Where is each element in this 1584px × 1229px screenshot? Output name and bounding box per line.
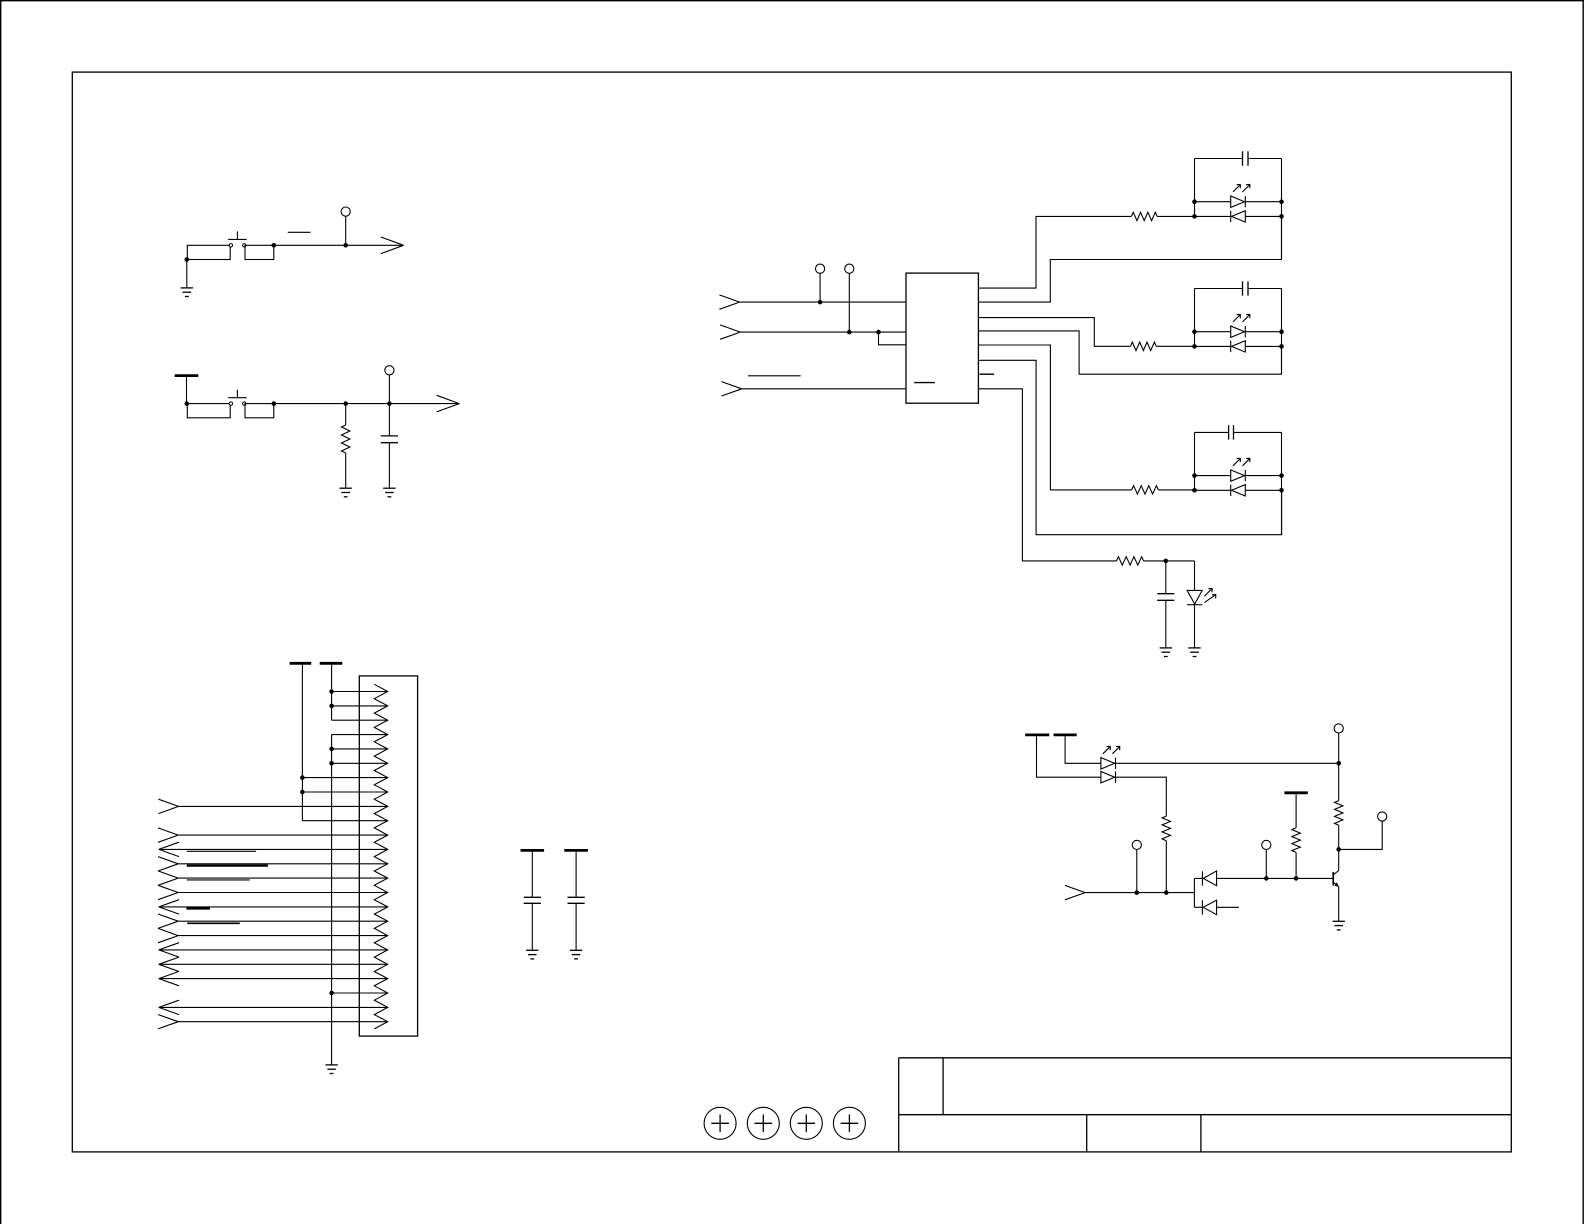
testpoint TP7: [1262, 840, 1271, 849]
wire pin3: [332, 719, 388, 721]
LED D5 emission arrows: [1103, 746, 1111, 754]
wire U1 pin to R3: [978, 345, 1131, 490]
wire input 3: [742, 388, 906, 390]
wire: [1144, 560, 1195, 562]
node: [1336, 847, 1341, 852]
wire pin10: [302, 820, 387, 822]
off-page arrow pin12: [159, 842, 179, 849]
wire: ground rail: [331, 735, 333, 1065]
wire U1 pin to R1: [978, 216, 1131, 288]
wire: [1116, 762, 1339, 764]
power bar VDD A: [290, 662, 312, 665]
ground: [383, 487, 395, 489]
capacitor C-B: [568, 896, 585, 898]
wire input 1: [740, 301, 906, 303]
wire U1 pin to R4: [978, 389, 1116, 561]
wire pin18: [178, 935, 388, 937]
node: [1164, 890, 1169, 895]
switch SW2 actuator: [236, 390, 238, 398]
wire pin7: [302, 777, 387, 779]
switch SW1 actuator: [236, 231, 238, 239]
LED D5: [1101, 758, 1115, 769]
wire: VDD A rail: [301, 665, 303, 821]
diode pair rail: [1193, 878, 1195, 907]
power bar VCC E: [1054, 734, 1077, 737]
wire LED block 1 top: [1195, 158, 1243, 160]
wire LED block 2 top: [1195, 288, 1243, 290]
wire pin19: [159, 949, 388, 951]
resistor R3: [1132, 486, 1159, 494]
resistor R6: [1338, 763, 1340, 800]
testpoint TP4: [845, 264, 854, 273]
node: [1264, 876, 1269, 881]
node: [1192, 344, 1197, 349]
wire right rail: [1281, 432, 1283, 534]
switch SW1 contacts: [229, 244, 232, 247]
LED D2a emission arrows: [1233, 314, 1241, 322]
node: junction SW2 left: [185, 401, 190, 406]
power bar VCC F: [1284, 791, 1307, 794]
capacitor C4: [1165, 561, 1167, 594]
LED D6: [1101, 772, 1115, 783]
wire pin14: [178, 877, 388, 879]
resistor R5: [1162, 816, 1170, 841]
wire left rail: [1194, 159, 1196, 217]
node: [300, 790, 305, 795]
wire: [186, 260, 188, 288]
wire pin13: [178, 863, 388, 865]
off-page arrow pin24: [158, 1015, 178, 1022]
wire: [531, 903, 533, 950]
ground: [340, 487, 352, 489]
wire: [186, 377, 188, 404]
connector J1 body: [359, 676, 417, 1036]
wire: [1116, 777, 1167, 816]
transistor Q1: [1338, 849, 1340, 870]
wire pin9: [179, 805, 388, 807]
off-page arrow input 3: [722, 382, 742, 389]
LED D3b: [1195, 489, 1231, 491]
resistor R2: [1131, 342, 1157, 350]
off-page arrow pin16: [159, 900, 179, 907]
LED D2a: [1195, 331, 1231, 333]
wire: [1157, 215, 1194, 217]
node: [329, 761, 334, 766]
resistor R4: [1117, 557, 1144, 565]
capacitor C2: [1242, 281, 1244, 295]
node: [1336, 761, 1341, 766]
power bar VCC A: [521, 849, 545, 852]
wire pin6: [332, 762, 388, 764]
wire: [274, 244, 404, 246]
wire right rail: [1281, 289, 1283, 375]
wire: [1037, 736, 1101, 777]
mounting hole MH1: [704, 1107, 736, 1139]
off-page arrow pin13: [158, 857, 178, 864]
net label line input 3: [748, 375, 801, 377]
wire pin17: [178, 920, 388, 922]
node: [1294, 876, 1299, 881]
wire pin21: [159, 978, 388, 980]
off-page arrow pin17: [158, 914, 178, 921]
node: junction SW1 out: [272, 243, 277, 248]
wire: [1165, 841, 1167, 893]
wire pin11: [178, 834, 388, 836]
wire pin24: [178, 1021, 388, 1023]
wire pin2: [332, 705, 388, 707]
net label line pin16 (bold): [186, 907, 210, 909]
wire: [274, 403, 460, 405]
wire LED block 3 top: [1195, 431, 1229, 433]
wire pin20: [159, 963, 388, 965]
node: [1279, 488, 1284, 493]
wire: [1234, 431, 1282, 433]
ground: [526, 949, 538, 951]
node: [329, 747, 334, 752]
node: [329, 689, 334, 694]
wire: [848, 273, 850, 332]
resistor R1: [1131, 212, 1157, 220]
LED D4: [1194, 561, 1196, 591]
wire left rail: [1194, 289, 1196, 347]
wire right rail: [1281, 159, 1283, 260]
wire: [345, 216, 347, 245]
wire: [575, 903, 577, 950]
node: [1192, 329, 1197, 334]
wire pin22: [332, 992, 388, 994]
testpoint TP3: [816, 264, 825, 273]
capacitor C1: [1242, 151, 1244, 165]
power bar VCC D: [1025, 734, 1049, 737]
wire: [1158, 489, 1194, 491]
wire pin5: [332, 748, 388, 750]
wire input 2: [740, 331, 906, 333]
wire pin16: [159, 906, 388, 908]
testpoint TP8: [1132, 840, 1141, 849]
net label line pin13 (bold): [187, 864, 268, 866]
off-page arrow input: [1065, 885, 1085, 892]
wire pin15: [178, 892, 388, 894]
wire: VDD B rail: [331, 665, 333, 721]
LED D4 emission arrows: [1204, 588, 1212, 596]
LED D3a emission arrows: [1233, 458, 1241, 466]
ground: [1160, 647, 1172, 649]
wire: [1136, 850, 1138, 893]
wire U1 pin to LED3 return: [978, 360, 1281, 534]
wire: [1248, 158, 1282, 160]
mounting hole MH2: [747, 1107, 779, 1139]
resistor R-pulldown: [345, 404, 347, 425]
diode D8: [1194, 906, 1202, 908]
wire pin4: [332, 734, 388, 736]
wire U1 pin to LED1 return: [978, 216, 1281, 302]
LED D3a: [1195, 475, 1231, 477]
off-page arrow pin21: [159, 971, 179, 978]
title block: [899, 1057, 1512, 1059]
capacitor C3: [1228, 425, 1230, 439]
wire: [1065, 736, 1101, 763]
wire: [1338, 733, 1340, 763]
testpoint TP5: [1334, 724, 1343, 733]
power bar VCC B: [564, 849, 588, 852]
node: [876, 330, 881, 335]
node: [1192, 473, 1197, 478]
wire pin23: [159, 1006, 388, 1008]
off-page arrow pin9: [158, 799, 178, 806]
wire: [1156, 345, 1194, 347]
node: junction C top: [387, 401, 392, 406]
node: [1192, 199, 1197, 204]
ground: [570, 949, 582, 951]
node: [300, 775, 305, 780]
node: junction SW2 out: [272, 401, 277, 406]
wire branch to pin: [879, 332, 907, 345]
wire: [1265, 850, 1267, 879]
node: [1192, 214, 1197, 219]
wire: [531, 852, 533, 898]
wire left rail: [1194, 432, 1196, 490]
power bar VCC: [175, 374, 199, 377]
wire: [819, 273, 821, 302]
resistor R7: [1295, 794, 1297, 828]
node: junction R top: [343, 401, 348, 406]
wire: [1248, 288, 1282, 290]
off-page arrow out: [381, 237, 404, 245]
testpoint TP6: [1378, 812, 1387, 821]
node: [1279, 199, 1284, 204]
LED D1b: [1195, 215, 1231, 217]
node: [847, 330, 852, 335]
off-page arrow pin19: [159, 943, 179, 950]
ground: [325, 1064, 337, 1066]
switch SW2 body box left: [187, 404, 230, 418]
testpoint TP1: [341, 207, 350, 216]
capacitor C-filter: [388, 404, 390, 436]
testpoint TP2: [385, 366, 394, 375]
node: junction SW1 left: [185, 257, 190, 262]
node: [1164, 559, 1169, 564]
switch SW1 body box left: [187, 245, 230, 259]
node: [818, 300, 823, 305]
diode D7: [1194, 877, 1202, 879]
op IC U1 body: [906, 273, 978, 403]
node: [329, 704, 334, 709]
wire to testpoint: [1339, 821, 1383, 849]
node: [1135, 890, 1140, 895]
wire pin1: [332, 691, 388, 693]
wire pin12: [159, 848, 388, 850]
node: [1279, 344, 1284, 349]
mounting hole MH3: [790, 1107, 822, 1139]
LED D2b: [1195, 345, 1231, 347]
off-page arrow out: [437, 395, 460, 403]
off-page arrow input 1: [719, 295, 739, 302]
net label line pin14: [187, 879, 250, 881]
off-page arrow pin18: [158, 928, 178, 935]
page border: [0, 0, 1584, 2]
off-page arrow pin23: [159, 1000, 179, 1007]
base wire: [1217, 877, 1334, 879]
off-page arrow input 2: [720, 325, 740, 332]
wire: [575, 852, 577, 898]
switch SW2 contacts: [229, 402, 232, 405]
wire U1 pin to R2: [978, 318, 1130, 347]
capacitor C-A: [524, 896, 541, 898]
ground: [1188, 647, 1200, 649]
node: [1192, 488, 1197, 493]
node: [1279, 329, 1284, 334]
ground: [181, 287, 193, 289]
wire input: [1085, 892, 1194, 894]
node: [1279, 214, 1284, 219]
connector J1 pin zigzag: [374, 684, 387, 1029]
off-page arrow pin15: [158, 885, 178, 892]
power bar VDD B: [320, 662, 343, 665]
off-page arrow pin14: [158, 871, 178, 878]
LED D1a emission arrows: [1233, 184, 1241, 192]
net label line pin17: [187, 922, 240, 924]
wire pin8: [302, 791, 387, 793]
mounting hole MH4: [833, 1107, 865, 1139]
off-page arrow pin11: [158, 828, 178, 835]
ground: [1333, 920, 1345, 922]
net label line right of U1: [980, 373, 995, 375]
switch SW2 body box right: [245, 404, 274, 418]
LED D1a: [1195, 201, 1231, 203]
wire U1 pin to LED2 return: [978, 331, 1281, 374]
wire stub D8: [1217, 906, 1239, 908]
node: [1279, 473, 1284, 478]
node: junction TP1: [343, 243, 348, 248]
net label line pin12: [187, 850, 256, 852]
net label line inside U1: [914, 382, 935, 384]
switch SW1 body box right: [245, 245, 274, 259]
node: [329, 991, 334, 996]
net label line: [288, 231, 311, 233]
off-page arrow pin20: [159, 957, 179, 964]
